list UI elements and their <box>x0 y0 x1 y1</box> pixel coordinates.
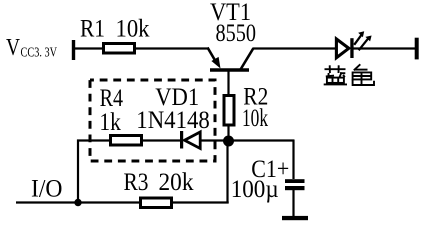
label C1+ 100u <box>231 156 290 203</box>
svg-text:1k: 1k <box>99 109 121 136</box>
svg-text:CC3. 3V: CC3. 3V <box>21 45 58 60</box>
wire right vertical up to node <box>226 141 228 203</box>
label R4 1k <box>99 85 123 136</box>
wire left vertical down to I/O node <box>77 140 79 204</box>
svg-text:20k: 20k <box>159 169 194 196</box>
node junction A <box>223 136 234 147</box>
wire R4 to left corner <box>77 139 110 141</box>
色 <box>353 64 374 85</box>
svg-text:I/O: I/O <box>31 176 63 203</box>
wire LED to right terminal <box>353 47 415 49</box>
label R2 10k <box>242 84 268 133</box>
wire node to cap branch horizontal <box>229 139 295 141</box>
wire cap to bottom terminal <box>292 190 294 216</box>
svg-text:R1: R1 <box>80 16 105 43</box>
svg-text:1N4148: 1N4148 <box>136 107 210 134</box>
svg-text:8550: 8550 <box>216 20 257 47</box>
wire VCC to R1 <box>74 47 103 49</box>
label VT1 8550 <box>210 0 256 47</box>
wire R1 to transistor emitter <box>136 47 209 49</box>
resistor R4 <box>111 136 142 146</box>
net label VCC3.3V <box>6 35 57 61</box>
svg-text:10k: 10k <box>242 105 268 132</box>
terminal VCC <box>72 40 75 60</box>
diode VD1 <box>180 131 200 149</box>
wire diode to R4 <box>142 139 180 141</box>
dashed box around R4 VD1 <box>90 80 215 161</box>
wire R3 to right corner <box>171 201 229 203</box>
capacitor C1 <box>285 179 305 190</box>
label blue (蓝色) drawn as paths <box>324 64 374 85</box>
node I/O junction <box>74 199 81 206</box>
terminal bottom <box>282 216 308 220</box>
resistor R3 <box>141 198 172 208</box>
label VD1 1N4148 <box>136 84 210 134</box>
svg-text:100µ: 100µ <box>231 176 279 203</box>
resistor R2 <box>224 96 234 126</box>
wire R2 to node <box>227 126 229 141</box>
蓝 <box>324 65 347 84</box>
wire collector to LED <box>253 47 336 49</box>
wire cap branch vertical <box>292 140 294 180</box>
transistor VT1 <box>208 48 254 96</box>
svg-text:R3: R3 <box>124 169 149 196</box>
resistor R1 <box>104 44 135 54</box>
wire I/O lead <box>16 201 140 203</box>
svg-text:10k: 10k <box>116 16 150 43</box>
LED blue <box>336 31 371 58</box>
wire node to diode <box>201 139 228 141</box>
svg-text:V: V <box>6 35 21 61</box>
terminal right <box>415 38 419 60</box>
svg-text:R4: R4 <box>100 85 124 112</box>
